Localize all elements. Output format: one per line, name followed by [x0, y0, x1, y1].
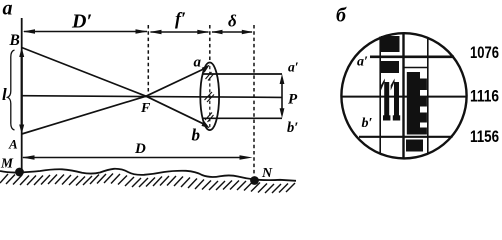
- ray A-F-a: [22, 68, 207, 135]
- svg-text:а: а: [3, 0, 13, 20]
- svg-text:D′: D′: [71, 11, 92, 33]
- svg-text:A: A: [8, 137, 18, 152]
- svg-text:l: l: [2, 85, 7, 104]
- svg-text:B: B: [9, 32, 20, 49]
- svg-text:b′: b′: [287, 120, 298, 136]
- svg-text:b′: b′: [362, 116, 373, 131]
- dashed line through F: [147, 25, 149, 93]
- svg-text:a′: a′: [357, 55, 368, 70]
- rod block 1 (top left): [381, 36, 400, 52]
- line b-b': [203, 117, 282, 119]
- svg-text:F: F: [140, 101, 151, 116]
- middle cross line: [342, 96, 468, 98]
- arrow P (image): [281, 80, 283, 112]
- svg-text:a: a: [194, 55, 202, 71]
- dimension delta line: [212, 31, 252, 33]
- optical axis: [22, 96, 282, 98]
- dashed line through lens: [209, 25, 211, 61]
- ground wavy line: [0, 169, 296, 181]
- svg-text:δ: δ: [228, 12, 237, 31]
- dimension f' line: [151, 31, 209, 33]
- rod right vertical: [427, 37, 429, 154]
- svg-text:1156: 1156: [470, 128, 499, 146]
- dimension D' line: [24, 31, 147, 33]
- upper stadia line (a'): [370, 55, 454, 58]
- svg-text:1076: 1076: [470, 44, 499, 62]
- svg-text:N: N: [261, 166, 273, 181]
- svg-text:a′: a′: [288, 60, 299, 75]
- lower stadia line (b'): [359, 136, 453, 138]
- dashed line right (to N): [253, 25, 255, 174]
- svg-text:б: б: [336, 5, 347, 27]
- dot N: [250, 176, 259, 185]
- ray B-F-b: [22, 48, 207, 126]
- lens hatching: [205, 72, 215, 122]
- svg-text:f′: f′: [175, 9, 186, 29]
- lens: [200, 63, 219, 131]
- object arrow l (double headed): [21, 53, 23, 128]
- svg-text:P: P: [288, 92, 298, 108]
- rod bottom block: [406, 140, 423, 152]
- short line above right column: [403, 67, 428, 69]
- brace for l: [8, 50, 15, 130]
- dimension D line: [23, 157, 240, 159]
- svg-text:M: M: [0, 156, 14, 171]
- svg-text:D: D: [134, 141, 146, 157]
- svg-text:1116: 1116: [470, 88, 499, 106]
- rod right column teeth: [420, 79, 427, 91]
- svg-text:b: b: [192, 126, 201, 145]
- digits 11 on rod: [381, 79, 400, 121]
- rod block 2: [381, 61, 400, 73]
- rod left edge vertical: [379, 37, 381, 155]
- dot M: [15, 168, 24, 177]
- rod middle vertical: [402, 33, 404, 159]
- rod right column spine: [407, 72, 420, 135]
- ground hatching: [0, 174, 295, 194]
- line a-a': [203, 73, 282, 75]
- staff line MB: [21, 18, 23, 169]
- circle (field of view): [341, 33, 466, 158]
